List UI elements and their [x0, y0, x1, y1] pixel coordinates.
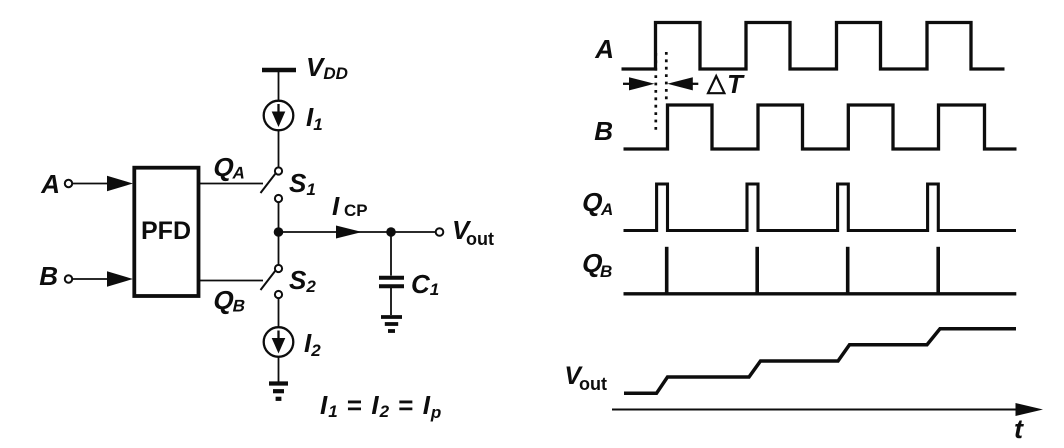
switch S1 bottom contact [275, 195, 282, 202]
current source I2 [264, 327, 294, 357]
ground under C1 [381, 317, 402, 331]
svg-text:B: B [600, 262, 612, 281]
wire I1 to S1 [278, 130, 280, 167]
current source I1 [264, 101, 294, 131]
switch S1 blade [261, 174, 276, 194]
capacitor C1 bottom plate [379, 284, 404, 288]
wire node to capacitor C1 [390, 232, 392, 276]
QB spike 2 [755, 247, 759, 294]
switch S2 bottom contact [275, 291, 282, 298]
svg-text:B: B [594, 116, 613, 146]
waveform Vout staircase [624, 329, 1016, 394]
wire I2 to ground [278, 357, 280, 382]
waveform QA [624, 184, 1017, 231]
svg-text:T: T [727, 69, 745, 99]
wire VDD to I1 [278, 70, 280, 101]
time axis arrowhead [1016, 403, 1044, 416]
wire B input [72, 278, 112, 280]
svg-text:A: A [600, 200, 613, 219]
wire node X to Vout terminal [279, 231, 436, 233]
PFD block U1 [134, 168, 198, 296]
svg-text:out: out [466, 229, 494, 249]
wire QA (PFD to S1) [198, 183, 263, 185]
capacitor C1 top plate [379, 276, 404, 280]
terminal Vout [436, 228, 444, 236]
VDD supply bar [262, 68, 296, 73]
svg-text:out: out [579, 374, 607, 394]
arrowhead ICP current [336, 226, 362, 239]
wire S2 to I2 [278, 298, 280, 327]
svg-text:A: A [40, 169, 60, 199]
switch S1 top contact [275, 167, 282, 174]
dotted line at A rising edge [654, 53, 657, 130]
wire C1 to ground [390, 288, 392, 315]
ground under I2 [269, 384, 288, 399]
wire A input [72, 183, 112, 185]
QB spike 1 [665, 247, 669, 294]
svg-text:B: B [39, 261, 58, 291]
QB spike 4 [936, 247, 940, 294]
label delta T [708, 76, 724, 93]
time axis [612, 409, 1017, 411]
QB spike 3 [846, 247, 850, 294]
terminal B [65, 275, 72, 282]
junction node at C1 [386, 227, 396, 237]
wire node X to S2 [278, 232, 280, 265]
switch S2 blade [261, 271, 276, 291]
waveform A [622, 23, 1005, 70]
terminal A [65, 180, 72, 187]
waveform B [624, 105, 1017, 149]
svg-text:t: t [1014, 414, 1024, 444]
wire QB (PFD to S2) [198, 280, 263, 282]
wire S1 to node X [278, 202, 280, 233]
junction node X [274, 227, 284, 237]
svg-text:PFD: PFD [141, 217, 191, 245]
delta T right arrow [691, 83, 698, 85]
switch S2 top contact [275, 265, 282, 272]
dotted line at B rising edge [665, 52, 668, 101]
svg-text:I: I [332, 191, 340, 221]
delta T left arrow [623, 83, 631, 85]
svg-text:CP: CP [344, 201, 368, 220]
svg-text:A: A [594, 34, 614, 64]
arrowhead B input [107, 271, 133, 287]
waveform QB baseline [624, 292, 1017, 295]
arrowhead A input [107, 176, 133, 192]
